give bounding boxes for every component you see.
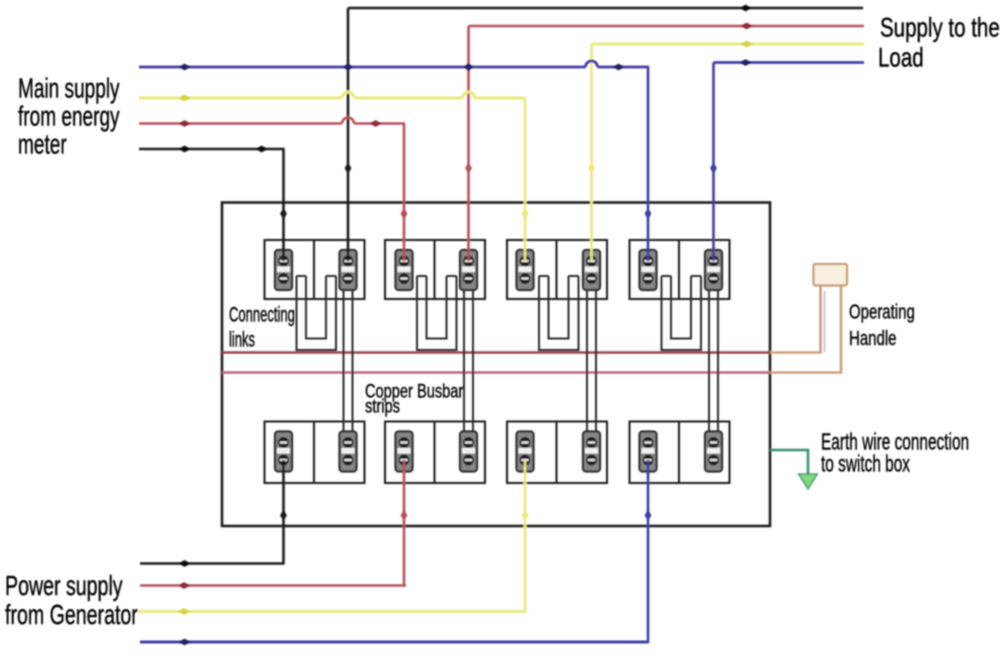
svg-text:Power supply: Power supply: [5, 571, 123, 602]
svg-text:Connecting: Connecting: [229, 302, 295, 326]
svg-text:from energy: from energy: [18, 101, 120, 133]
svg-text:links: links: [229, 327, 255, 351]
svg-text:from Generator: from Generator: [5, 600, 138, 631]
svg-text:to switch box: to switch box: [821, 452, 910, 478]
svg-text:meter: meter: [18, 129, 67, 161]
svg-text:Load: Load: [878, 43, 924, 73]
svg-text:Operating: Operating: [849, 300, 915, 323]
svg-text:strips: strips: [365, 394, 400, 417]
svg-text:Handle: Handle: [849, 327, 897, 350]
svg-text:Supply to the: Supply to the: [880, 13, 1000, 43]
svg-text:Main supply: Main supply: [18, 73, 120, 105]
